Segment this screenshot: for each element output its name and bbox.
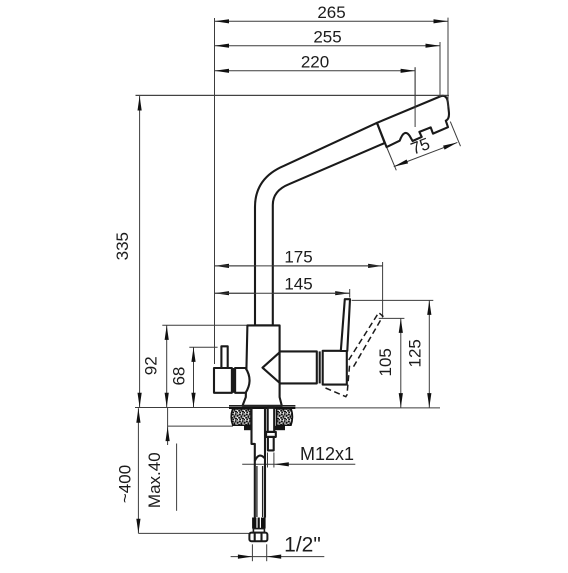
dim 68 [170,347,218,407]
mounting nut left [244,426,252,430]
hose ferrule [252,518,266,529]
wire: 175 dimension line overlay [215,265,383,267]
wire: 265 extension line right overlay [447,18,449,108]
dim M12x1 [242,444,355,466]
mounting nut right [274,426,285,430]
svg-text:125: 125 [405,339,424,367]
wire: 220 extension line right overlay [414,67,416,127]
dim Max.40 [145,408,233,511]
wire: countertop line right [296,407,441,409]
hose end nut 1/2 inch [249,533,267,542]
svg-text:265: 265 [317,3,345,22]
dim 175 [215,247,383,316]
cone chevron [263,352,280,383]
filter inlet tube upper [268,408,275,432]
dim 265 [215,3,449,108]
dim 255 [215,27,441,97]
svg-text:220: 220 [301,52,329,71]
filter handle collar [232,368,235,393]
wire: center extension line [214,18,216,364]
hose inner wall right [262,466,264,517]
counter hatch right [277,409,293,425]
svg-text:Max.40: Max.40 [145,452,164,508]
threaded shank right wall [264,408,266,518]
wire: countertop line left [135,407,230,409]
svg-text:68: 68 [170,367,189,386]
wire: spout top reference line overlay [136,94,449,96]
svg-text:255: 255 [313,27,341,46]
svg-text:175: 175 [284,247,312,266]
svg-text:92: 92 [142,356,161,375]
dim 75 (rotated) [387,125,458,169]
counter hatch left [231,409,251,425]
thread transition arc [255,456,265,461]
hose neck [253,529,264,533]
svg-text:1/2": 1/2" [284,534,321,557]
cartridge cylinder [280,351,317,383]
wire: 75 extension line left [387,148,397,171]
base plate top edge [229,405,295,407]
svg-text:335: 335 [113,232,132,260]
wire: M12x1 extension line right [273,453,275,468]
svg-text:105: 105 [376,348,395,376]
svg-text:M12x1: M12x1 [300,444,354,464]
dashed lever down [326,364,350,397]
dim 125 [352,300,434,407]
svg-text:~400: ~400 [116,465,135,503]
threaded shank left wall [252,408,255,518]
dim 1/2" [231,534,325,562]
dim 335 [113,95,449,407]
filter handle hub [235,368,249,393]
dim ~400 [116,408,252,533]
filter inlet tube nut [266,432,276,437]
faucet spout: riser + tube [255,123,385,326]
dim 145 [215,275,350,298]
filter handle stem [221,346,227,368]
body [243,325,282,405]
dim 105 [376,318,405,407]
dim 220 [215,52,416,127]
base plate bottom edge [229,407,295,409]
hose inner wall left [256,466,258,517]
wire: 75 extension line right [450,122,460,147]
dashed lever up [349,313,383,367]
svg-text:145: 145 [284,275,312,294]
lever rod [341,299,350,351]
cap [323,351,347,385]
wire: 255 extension line right overlay [439,42,441,97]
dim 92 [142,325,247,407]
filter inlet tube end M12x1 [268,437,274,451]
filter handle knob [214,368,232,393]
spout head [377,96,449,147]
wire: 145 dimension line overlay [215,292,350,294]
wire: M12x1 extension line left [267,453,269,468]
